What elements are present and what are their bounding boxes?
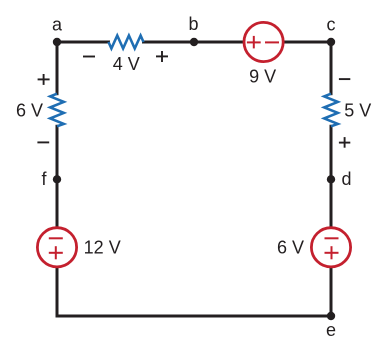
svg-text:d: d [341, 169, 351, 189]
svg-text:12 V: 12 V [84, 238, 121, 258]
svg-text:6 V: 6 V [16, 101, 43, 121]
svg-text:b: b [188, 14, 198, 34]
svg-text:9 V: 9 V [249, 67, 276, 87]
svg-text:f: f [41, 169, 47, 189]
svg-text:a: a [52, 15, 63, 35]
svg-text:e: e [326, 320, 336, 340]
svg-text:4 V: 4 V [113, 54, 140, 74]
svg-text:6 V: 6 V [277, 238, 304, 258]
svg-text:c: c [327, 15, 336, 35]
svg-text:5 V: 5 V [344, 101, 371, 121]
